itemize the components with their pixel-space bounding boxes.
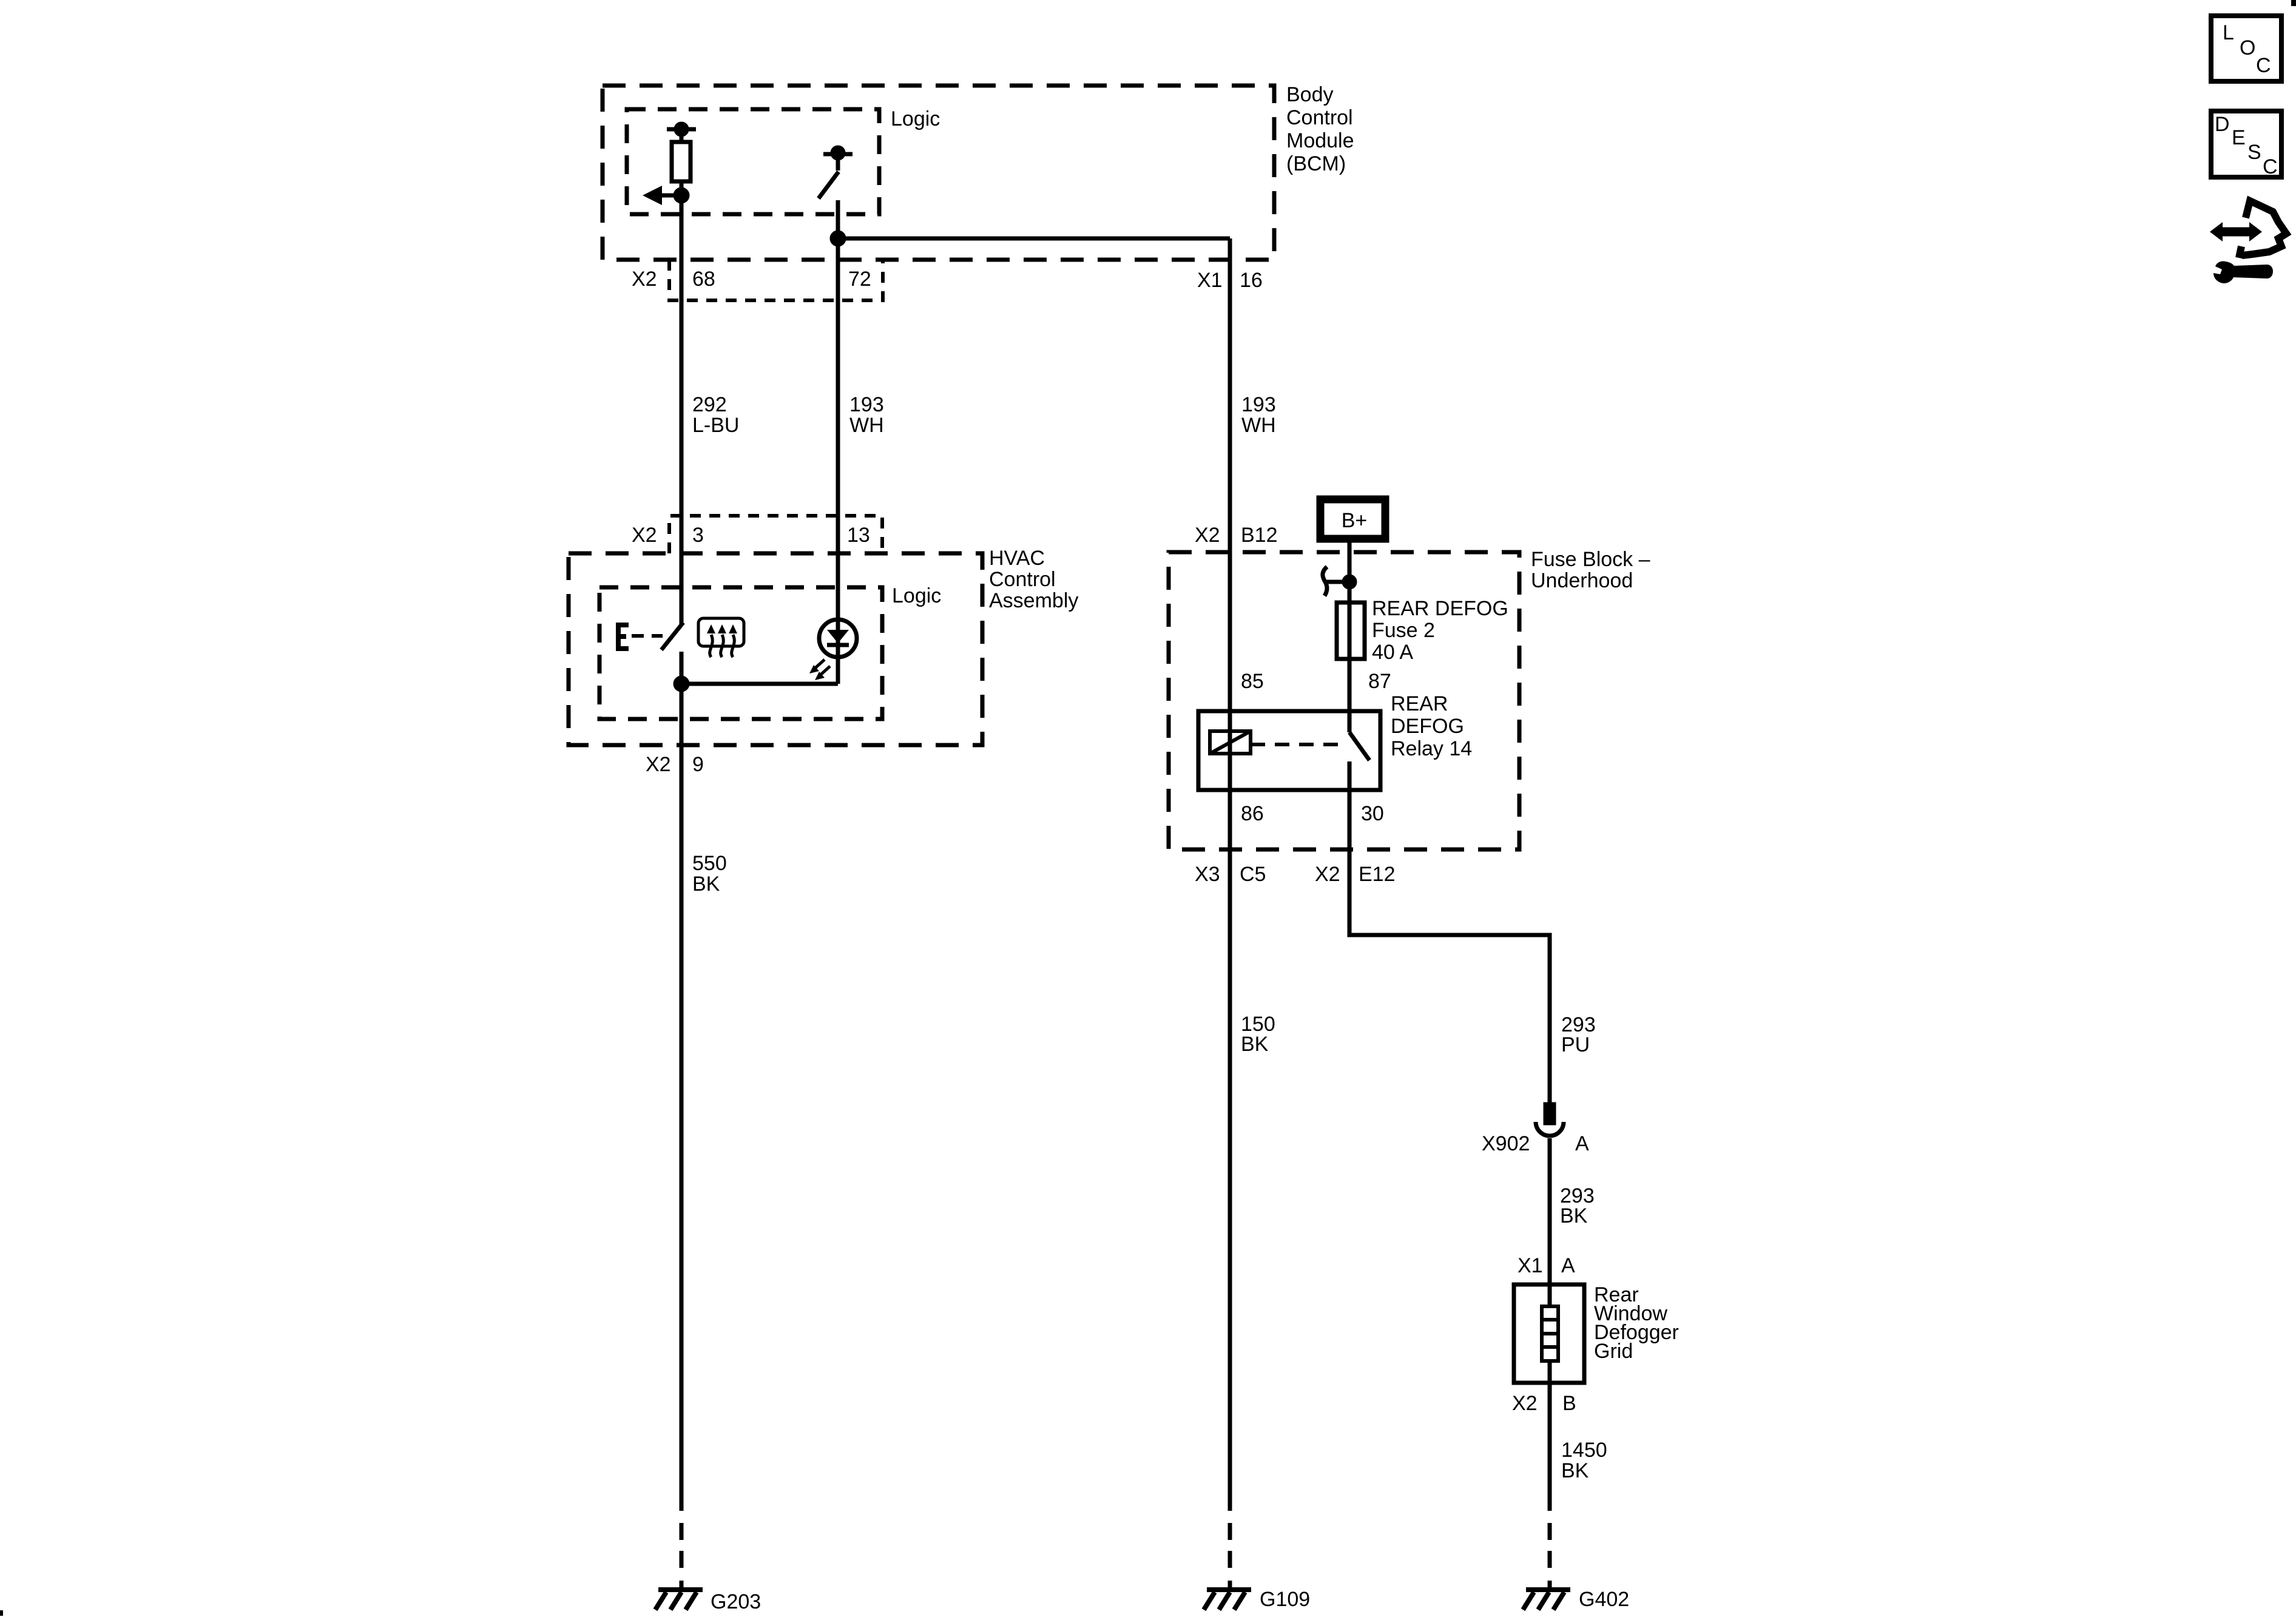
svg-text:72: 72 (848, 268, 871, 291)
svg-text:X2: X2 (646, 753, 671, 776)
ground G109 (1204, 1590, 1251, 1610)
svg-text:Logic: Logic (891, 107, 940, 130)
svg-text:E12: E12 (1359, 863, 1396, 886)
LED in HVAC (809, 619, 857, 680)
svg-text:BK: BK (1560, 1204, 1588, 1227)
svg-text:X2: X2 (632, 524, 657, 547)
svg-text:Module: Module (1286, 129, 1354, 152)
svg-text:193: 193 (849, 393, 884, 416)
junction dot LED/switch wire (675, 678, 687, 690)
svg-text:DEFOG: DEFOG (1391, 715, 1464, 738)
svg-text:X3: X3 (1195, 863, 1220, 886)
switch in BCM (819, 147, 853, 198)
svg-text:Control: Control (1286, 106, 1353, 129)
svg-text:REAR: REAR (1391, 692, 1448, 715)
svg-text:X1: X1 (1518, 1254, 1543, 1277)
svg-text:(BCM): (BCM) (1286, 152, 1346, 175)
wire W1: resistor junction down to G203 solid (680, 195, 684, 624)
BCM horizontal wire to X1-16 (838, 237, 1230, 241)
connector X2 box (pins 68/72) (669, 260, 883, 300)
svg-text:L-BU: L-BU (692, 414, 739, 437)
svg-text:D: D (2215, 113, 2230, 136)
svg-text:13: 13 (847, 524, 870, 547)
svg-text:L: L (2223, 21, 2234, 44)
svg-text:C: C (2256, 54, 2271, 77)
svg-text:68: 68 (692, 268, 715, 291)
svg-text:550: 550 (692, 852, 727, 875)
svg-text:292: 292 (692, 393, 727, 416)
svg-text:30: 30 (1361, 802, 1384, 825)
relay coil (1210, 731, 1251, 754)
defogger icon in HVAC (698, 618, 744, 657)
relay box (1198, 711, 1380, 790)
wire W5: X902 down through grid to G402 (1548, 1138, 1552, 1306)
svg-text:Fuse 2: Fuse 2 (1372, 619, 1435, 642)
svg-text:HVAC: HVAC (989, 547, 1045, 570)
switch in HVAC with E actuator (616, 623, 683, 650)
svg-text:X2: X2 (1512, 1392, 1538, 1415)
svg-text:Logic: Logic (892, 584, 941, 607)
svg-text:X1: X1 (1197, 269, 1223, 292)
relay dashed link (1251, 743, 1342, 746)
svg-text:C: C (2263, 155, 2278, 178)
svg-text:BK: BK (692, 873, 720, 896)
LOC icon box (2211, 16, 2281, 81)
wire W2: switch down through LED (836, 200, 840, 684)
B+ symbol (1320, 499, 1385, 539)
svg-text:3: 3 (692, 524, 704, 547)
svg-text:16: 16 (1240, 269, 1263, 292)
svg-text:REAR DEFOG: REAR DEFOG (1372, 597, 1508, 620)
wire W3: X1-16 down to G109 (1228, 238, 1232, 1511)
connector X2 box (pins 3/13) (669, 516, 882, 553)
svg-text:40 A: 40 A (1372, 641, 1413, 664)
svg-text:86: 86 (1241, 802, 1264, 825)
svg-text:BK: BK (1241, 1033, 1269, 1056)
BCM logic dashed box (627, 109, 879, 214)
svg-text:Relay 14: Relay 14 (1391, 737, 1472, 760)
svg-text:Fuse Block –: Fuse Block – (1531, 548, 1650, 571)
Fuse block dashed box (1169, 552, 1519, 849)
HVAC outer dashed box (569, 553, 982, 745)
ground G203 (655, 1590, 703, 1610)
svg-text:X2: X2 (1315, 863, 1340, 886)
ground G402 (1523, 1590, 1570, 1610)
wire W4: B+ down through fuse and relay to E12 and jog right (1348, 542, 1352, 732)
svg-text:WH: WH (1241, 414, 1276, 437)
svg-text:87: 87 (1368, 670, 1391, 693)
wire W1 dashed lead to ground (680, 1523, 684, 1590)
svg-text:BK: BK (1561, 1459, 1589, 1482)
svg-text:Control: Control (989, 568, 1056, 591)
svg-text:A: A (1575, 1132, 1589, 1155)
X902 connector (1536, 1104, 1564, 1136)
svg-text:B12: B12 (1241, 524, 1278, 547)
svg-text:Body: Body (1286, 83, 1334, 106)
svg-text:G402: G402 (1579, 1588, 1629, 1611)
svg-text:X2: X2 (1195, 524, 1220, 547)
svg-text:C5: C5 (1240, 863, 1266, 886)
svg-text:S: S (2247, 141, 2261, 164)
svg-text:9: 9 (692, 753, 704, 776)
LED to switch-wire horizontal (681, 682, 838, 686)
svg-text:Grid: Grid (1594, 1340, 1633, 1363)
resistor in BCM (643, 124, 696, 205)
svg-text:PU: PU (1561, 1033, 1590, 1056)
defogger grid (1514, 1284, 1584, 1383)
DESC icon box (2211, 111, 2281, 177)
svg-text:X2: X2 (632, 268, 657, 291)
svg-text:G109: G109 (1260, 1588, 1310, 1611)
svg-text:B+: B+ (1342, 509, 1368, 532)
HVAC logic dashed box (599, 587, 882, 719)
harness icon: double arrow, outline, wrench (2210, 201, 2286, 283)
svg-text:WH: WH (849, 414, 884, 437)
svg-text:O: O (2240, 36, 2255, 59)
relay blade (1349, 732, 1369, 760)
svg-text:Underhood: Underhood (1531, 569, 1633, 592)
fuse REAR DEFOG Fuse 2 40A (1337, 603, 1365, 659)
svg-text:Assembly: Assembly (989, 589, 1078, 612)
fuse clip symbol (1323, 567, 1355, 596)
svg-text:85: 85 (1241, 670, 1264, 693)
svg-text:G203: G203 (711, 1590, 761, 1613)
page specks (2291, 0, 2296, 6)
svg-text:193: 193 (1241, 393, 1276, 416)
svg-text:E: E (2232, 126, 2246, 149)
svg-text:X902: X902 (1482, 1132, 1530, 1155)
svg-text:A: A (1561, 1254, 1575, 1277)
svg-text:1450: 1450 (1561, 1439, 1607, 1462)
junction dot at BCM wire split (832, 232, 844, 245)
svg-text:B: B (1562, 1392, 1576, 1415)
BCM outer dashed box (603, 86, 1274, 260)
